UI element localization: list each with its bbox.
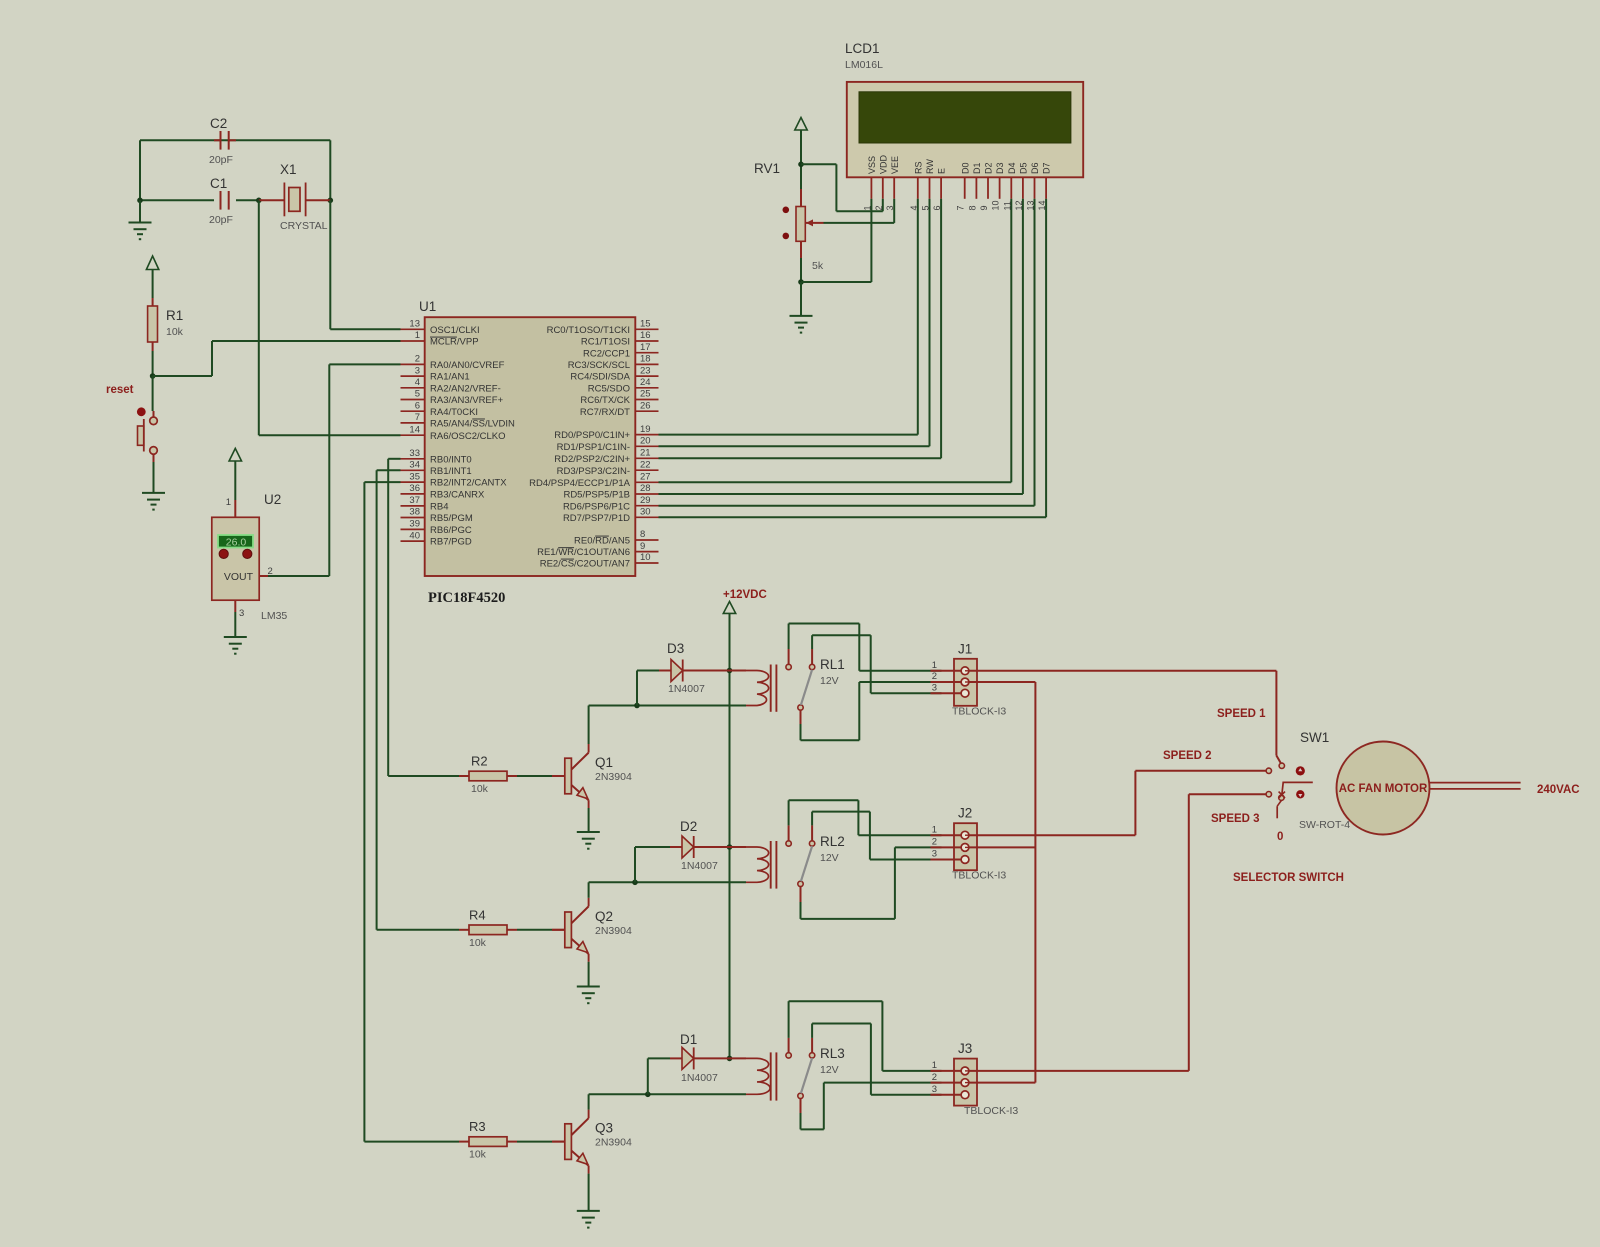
wire: RL3 NC contact to J3 pin2 (801, 1083, 942, 1130)
svg-text:MCLR/VPP: MCLR/VPP (430, 337, 479, 348)
svg-text:30: 30 (640, 507, 651, 518)
relay RL1 coil (730, 657, 845, 712)
label reset (106, 384, 134, 396)
svg-text:CRYSTAL: CRYSTAL (280, 220, 328, 232)
wire: RL3 NO contact to J3 pin1 (789, 1001, 942, 1071)
wire: RL1 NC contact to J1 pin2 (801, 682, 942, 740)
wire: RL2 NO contact to J2 pin1 (789, 800, 942, 835)
ground (C1 left) (129, 200, 152, 239)
svg-text:LM35: LM35 (261, 610, 287, 622)
wire: J2 pin1 to SW1 (SPEED 2 net) (969, 771, 1266, 835)
wire: LCD VSS to RV1 bottom (801, 199, 871, 282)
svg-text:LCD1: LCD1 (845, 41, 880, 56)
wire: LCD RS to RD0 pin19 (659, 199, 918, 435)
svg-text:RS: RS (913, 161, 923, 174)
svg-text:J2: J2 (958, 806, 972, 821)
wire: Q3 collector to relay RL3 coil node (589, 1092, 746, 1110)
svg-text:RD7/PSP7/P1D: RD7/PSP7/P1D (563, 513, 630, 524)
svg-text:13: 13 (1026, 200, 1036, 210)
svg-text:15: 15 (640, 319, 651, 330)
microcontroller U1 PIC18F4520 body (401, 299, 659, 606)
svg-text:2: 2 (415, 354, 420, 365)
svg-text:RB3/CANRX: RB3/CANRX (430, 490, 485, 501)
svg-text:2: 2 (932, 1072, 937, 1083)
svg-text:29: 29 (640, 495, 651, 506)
wire: common net J1 pin2 / J2 pin2 / J3 pin2 (969, 682, 1036, 1083)
svg-text:R1: R1 (166, 308, 183, 323)
svg-text:D5: D5 (1019, 162, 1029, 174)
svg-text:RL3: RL3 (820, 1046, 845, 1061)
wire: LCD E to RD2 pin21 (659, 199, 942, 459)
wire: RB1 pin34 to R4 (377, 470, 459, 930)
svg-text:6: 6 (415, 400, 420, 411)
svg-text:RA1/AN1: RA1/AN1 (430, 372, 470, 383)
resistor R4 10k (459, 907, 517, 949)
svg-text:3: 3 (415, 365, 420, 376)
svg-text:20: 20 (640, 436, 651, 447)
svg-text:RA0/AN0/CVREF: RA0/AN0/CVREF (430, 360, 505, 371)
svg-text:1: 1 (932, 1060, 937, 1071)
svg-text:J1: J1 (958, 641, 972, 656)
relay RL1 contacts (786, 649, 815, 724)
wire: LCD VEE to RV1 wiper (824, 199, 895, 223)
power +5V arrow (above RV1) (795, 118, 807, 165)
wire: Q1 collector to relay RL1 coil node (589, 703, 746, 744)
svg-text:2N3904: 2N3904 (595, 1137, 632, 1149)
capacitor C2 (209, 116, 236, 166)
svg-text:J3: J3 (958, 1041, 972, 1056)
svg-text:2: 2 (932, 837, 937, 848)
svg-text:RC2/CCP1: RC2/CCP1 (583, 348, 630, 359)
svg-text:3: 3 (885, 205, 895, 210)
svg-text:2N3904: 2N3904 (595, 771, 632, 783)
wire: RL1 NO contact to J1 pin1 (789, 624, 942, 671)
svg-text:RA4/T0CKI: RA4/T0CKI (430, 407, 478, 418)
svg-text:SW-ROT-4: SW-ROT-4 (1299, 819, 1350, 831)
svg-text:9: 9 (640, 541, 645, 552)
svg-text:1N4007: 1N4007 (681, 1072, 718, 1084)
svg-text:RC7/RX/DT: RC7/RX/DT (580, 407, 630, 418)
wire: Q2 collector to relay RL2 coil node (589, 880, 746, 898)
svg-text:RD3/PSP3/C2IN-: RD3/PSP3/C2IN- (557, 466, 630, 477)
svg-text:LM016L: LM016L (845, 59, 883, 71)
svg-text:1: 1 (932, 824, 937, 835)
svg-text:X1: X1 (280, 162, 297, 177)
svg-text:5: 5 (921, 205, 931, 210)
svg-text:RB5/PGM: RB5/PGM (430, 513, 473, 524)
svg-text:10k: 10k (471, 783, 489, 795)
potentiometer RV1 5k (754, 161, 824, 285)
wire: C1/X1 row (137, 198, 333, 204)
svg-text:RA2/AN2/VREF-: RA2/AN2/VREF- (430, 383, 501, 394)
svg-text:RA6/OSC2/CLKO: RA6/OSC2/CLKO (430, 431, 506, 442)
svg-text:R3: R3 (469, 1119, 486, 1134)
temperature sensor U2 LM35 (212, 492, 288, 622)
wire: Q2 emitter to ground (588, 962, 590, 987)
svg-text:12V: 12V (820, 1064, 839, 1076)
svg-text:20pF: 20pF (209, 154, 233, 166)
svg-text:10: 10 (640, 552, 651, 563)
wire: crystal right to OSC1 pin13 (330, 200, 400, 329)
svg-text:+12VDC: +12VDC (723, 589, 767, 601)
relay RL3 coil (730, 1046, 845, 1101)
svg-text:1: 1 (226, 497, 231, 508)
svg-text:reset: reset (106, 384, 134, 396)
svg-text:12: 12 (1014, 200, 1024, 210)
svg-text:19: 19 (640, 424, 651, 435)
svg-text:C2: C2 (210, 116, 227, 131)
wire: RL2 pole to J2 pin3 (812, 812, 941, 860)
label SPEED 2 (1163, 750, 1212, 762)
svg-text:D2: D2 (984, 162, 994, 174)
svg-text:RA3/AN3/VREF+: RA3/AN3/VREF+ (430, 395, 504, 406)
diode D1 1N4007 (648, 1032, 730, 1094)
svg-text:RC5/SDO: RC5/SDO (588, 383, 630, 394)
LCD display LCD1 LM016L (845, 41, 1083, 199)
svg-text:RC3/SCK/SCL: RC3/SCK/SCL (568, 360, 630, 371)
svg-text:VSS: VSS (867, 156, 877, 174)
svg-text:SELECTOR SWITCH: SELECTOR SWITCH (1233, 872, 1344, 884)
svg-text:36: 36 (409, 483, 420, 494)
svg-text:E: E (937, 168, 947, 174)
svg-text:2: 2 (932, 671, 937, 682)
svg-text:SPEED 2: SPEED 2 (1163, 750, 1212, 762)
diode D2 1N4007 (635, 819, 730, 882)
svg-text:SPEED 3: SPEED 3 (1211, 813, 1260, 825)
ground (Q2) (577, 987, 600, 1004)
ground (reset) (142, 462, 165, 510)
svg-text:RE0/RD/AN5: RE0/RD/AN5 (574, 536, 630, 547)
svg-text:D4: D4 (1007, 162, 1017, 174)
svg-text:3: 3 (932, 849, 937, 860)
svg-text:RD0/PSP0/C1IN+: RD0/PSP0/C1IN+ (554, 430, 630, 441)
svg-text:38: 38 (409, 507, 420, 518)
svg-text:16: 16 (640, 330, 651, 341)
svg-text:RC4/SDI/SDA: RC4/SDI/SDA (570, 372, 630, 383)
svg-text:18: 18 (640, 354, 651, 365)
svg-text:RB2/INT2/CANTX: RB2/INT2/CANTX (430, 478, 507, 489)
ground (Q3) (577, 1211, 600, 1228)
svg-text:D2: D2 (680, 819, 697, 834)
wire: RB2 pin35 to R3 (364, 482, 459, 1142)
svg-text:20pF: 20pF (209, 214, 233, 226)
svg-text:RD2/PSP2/C2IN+: RD2/PSP2/C2IN+ (554, 454, 630, 465)
transistor Q1 2N3904 (517, 744, 632, 808)
svg-text:D1: D1 (972, 162, 982, 174)
svg-text:37: 37 (409, 495, 420, 506)
wire: U2 VOUT pin2 to RA0 pin2 (259, 364, 400, 577)
svg-text:RB4: RB4 (430, 502, 448, 513)
svg-text:26: 26 (640, 400, 651, 411)
resistor R3 10k (459, 1119, 517, 1161)
wire: RL1 pole to J1 pin3 (812, 635, 941, 693)
relay RL2 contacts (786, 825, 815, 902)
terminal block J2 TBLOCK-I3 (931, 806, 1007, 882)
svg-text:R2: R2 (471, 754, 488, 769)
svg-text:Q1: Q1 (595, 755, 613, 770)
svg-text:1: 1 (415, 330, 420, 341)
svg-text:PIC18F4520: PIC18F4520 (428, 590, 505, 606)
wire: RB0 pin33 to R2 (388, 459, 459, 776)
svg-text:40: 40 (409, 530, 420, 541)
capacitor C1 (209, 176, 233, 226)
label SELECTOR SWITCH (1233, 872, 1344, 884)
svg-text:RW: RW (925, 159, 935, 174)
svg-text:10k: 10k (469, 1149, 487, 1161)
svg-text:RB1/INT1: RB1/INT1 (430, 466, 472, 477)
crystal X1 (259, 162, 331, 232)
svg-text:21: 21 (640, 448, 651, 459)
svg-text:7: 7 (415, 412, 420, 423)
svg-text:1N4007: 1N4007 (681, 860, 718, 872)
terminal block J1 TBLOCK-I3 (931, 641, 1007, 717)
svg-text:AC FAN MOTOR: AC FAN MOTOR (1339, 783, 1428, 795)
svg-text:RL1: RL1 (820, 657, 845, 672)
svg-text:RC1/T1OSI: RC1/T1OSI (581, 337, 630, 348)
svg-text:C1: C1 (210, 176, 227, 191)
svg-text:0: 0 (1277, 831, 1283, 843)
wire: RL3 pole to J3 pin3 (812, 1024, 941, 1095)
svg-text:6: 6 (932, 205, 942, 210)
svg-text:D7: D7 (1042, 162, 1052, 174)
svg-text:1N4007: 1N4007 (668, 683, 705, 695)
power +12VDC rail (723, 589, 767, 1061)
svg-text:28: 28 (640, 483, 651, 494)
svg-text:1: 1 (862, 205, 872, 210)
transistor Q2 2N3904 (517, 898, 632, 962)
wire: RL2 NC contact to J2 pin2 (801, 847, 942, 919)
svg-text:RC6/TX/CK: RC6/TX/CK (580, 395, 630, 406)
svg-text:240VAC: 240VAC (1537, 784, 1580, 796)
svg-text:14: 14 (409, 424, 420, 435)
svg-text:VEE: VEE (890, 156, 900, 174)
rotary selector switch SW1 SW-ROT-4 (1266, 730, 1350, 843)
svg-text:10: 10 (991, 200, 1001, 210)
svg-text:3: 3 (932, 1084, 937, 1095)
wire: J1 pin1 to SW1 (SPEED 1 net) (969, 671, 1281, 763)
svg-text:5: 5 (415, 389, 420, 400)
power +5V arrow (above U2) (226, 448, 242, 517)
svg-text:Q3: Q3 (595, 1121, 613, 1136)
svg-text:14: 14 (1037, 200, 1047, 210)
transistor Q3 2N3904 (517, 1110, 632, 1174)
resistor R1 (148, 298, 184, 351)
svg-text:RB6/PGC: RB6/PGC (430, 525, 472, 536)
wire: Q3 emitter to ground (588, 1174, 590, 1211)
wire: LCD D7 to RD7 pin30 (659, 199, 1047, 518)
wire: J3 pin1 to SW1 (SPEED 3 net) (969, 794, 1266, 1071)
svg-text:8: 8 (640, 529, 645, 540)
svg-text:RE1/WR/C1OUT/AN6: RE1/WR/C1OUT/AN6 (537, 547, 630, 558)
wire: Q1 emitter to ground (588, 808, 590, 832)
svg-text:5k: 5k (812, 260, 824, 272)
svg-text:33: 33 (409, 448, 420, 459)
push button (reset) (137, 376, 157, 462)
svg-text:RL2: RL2 (820, 834, 845, 849)
svg-text:RA5/AN4/SS/LVDIN: RA5/AN4/SS/LVDIN (430, 419, 515, 430)
relay RL2 coil (730, 834, 845, 889)
svg-text:D1: D1 (680, 1032, 697, 1047)
svg-text:Q2: Q2 (595, 909, 613, 924)
wire: LCD D5 to RD5 pin28 (659, 199, 1023, 494)
svg-text:3: 3 (932, 682, 937, 693)
wire: crystal left to OSC2 pin14 (259, 200, 401, 435)
ground (Q1) (577, 832, 600, 849)
LCD pin numbers (862, 200, 1047, 210)
svg-text:RD6/PSP6/P1C: RD6/PSP6/P1C (563, 501, 630, 512)
wire: LCD D6 to RD6 pin29 (659, 199, 1035, 506)
svg-text:4: 4 (909, 205, 919, 210)
svg-text:RE2/CS/C2OUT/AN7: RE2/CS/C2OUT/AN7 (540, 559, 630, 570)
svg-text:26.0: 26.0 (226, 536, 247, 548)
svg-text:10k: 10k (469, 937, 487, 949)
svg-text:RV1: RV1 (754, 161, 780, 176)
power +5V arrow (above R1) (146, 256, 158, 298)
svg-text:24: 24 (640, 377, 651, 388)
svg-text:2: 2 (874, 205, 884, 210)
svg-text:D3: D3 (667, 641, 684, 656)
svg-text:11: 11 (1002, 201, 1012, 210)
svg-text:TBLOCK-I3: TBLOCK-I3 (964, 1105, 1018, 1117)
svg-text:17: 17 (640, 342, 651, 353)
wire: U2 pin3 to ground (235, 600, 244, 637)
svg-text:RB0/INT0: RB0/INT0 (430, 454, 472, 465)
label 240VAC (1537, 784, 1580, 796)
svg-text:34: 34 (409, 460, 420, 471)
svg-text:VDD: VDD (878, 154, 888, 174)
svg-text:12V: 12V (820, 852, 839, 864)
wire: LCD RW to RD1 pin20 (659, 199, 930, 446)
svg-text:4: 4 (415, 377, 420, 388)
svg-text:RC0/T1OSO/T1CKI: RC0/T1OSO/T1CKI (547, 325, 630, 336)
wire: LCD D4 to RD4 pin27 (659, 199, 1012, 483)
svg-text:RD1/PSP1/C1IN-: RD1/PSP1/C1IN- (557, 442, 630, 453)
svg-text:U2: U2 (264, 492, 281, 507)
terminal block J3 TBLOCK-I3 (931, 1041, 1019, 1117)
svg-text:10k: 10k (166, 326, 184, 338)
svg-text:U1: U1 (419, 299, 436, 314)
svg-text:27: 27 (640, 472, 651, 483)
ground (U2) (224, 637, 247, 654)
svg-text:D6: D6 (1030, 162, 1040, 174)
svg-text:TBLOCK-I3: TBLOCK-I3 (952, 705, 1006, 717)
svg-text:13: 13 (409, 319, 420, 330)
svg-text:D3: D3 (995, 162, 1005, 174)
svg-text:R4: R4 (469, 907, 486, 922)
svg-text:8: 8 (967, 205, 977, 210)
svg-text:25: 25 (640, 389, 651, 400)
svg-text:RD4/PSP4/ECCP1/P1A: RD4/PSP4/ECCP1/P1A (529, 478, 631, 489)
svg-text:12V: 12V (820, 675, 839, 687)
wire: LCD VDD to RV1 top (801, 164, 883, 211)
svg-text:35: 35 (409, 471, 420, 482)
svg-text:RD5/PSP5/P1B: RD5/PSP5/P1B (563, 490, 630, 501)
svg-text:SW1: SW1 (1300, 730, 1329, 745)
diode D3 1N4007 (637, 641, 730, 706)
resistor R2 10k (459, 754, 517, 796)
svg-text:2N3904: 2N3904 (595, 925, 632, 937)
svg-text:TBLOCK-I3: TBLOCK-I3 (952, 870, 1006, 882)
motor: AC FAN MOTOR (1337, 742, 1521, 835)
svg-text:OSC1/CLKI: OSC1/CLKI (430, 325, 480, 336)
ground (RV1) (790, 282, 813, 333)
svg-text:39: 39 (409, 519, 420, 530)
label SPEED 1 (1217, 708, 1266, 720)
relay RL3 contacts (786, 1038, 815, 1113)
svg-text:3: 3 (239, 608, 244, 619)
svg-text:1: 1 (932, 660, 937, 671)
svg-text:9: 9 (979, 205, 989, 210)
svg-text:7: 7 (956, 205, 966, 210)
wire: top oscillator loop C2 (140, 140, 330, 200)
wire: R1 to reset node and MCLR pin1 (150, 341, 401, 379)
svg-text:23: 23 (640, 365, 651, 376)
label SPEED 3 (1211, 813, 1260, 825)
svg-text:SPEED 1: SPEED 1 (1217, 708, 1266, 720)
svg-text:VOUT: VOUT (224, 571, 254, 583)
svg-text:D0: D0 (960, 162, 970, 174)
svg-text:22: 22 (640, 459, 651, 470)
svg-text:RB7/PGD: RB7/PGD (430, 537, 472, 548)
